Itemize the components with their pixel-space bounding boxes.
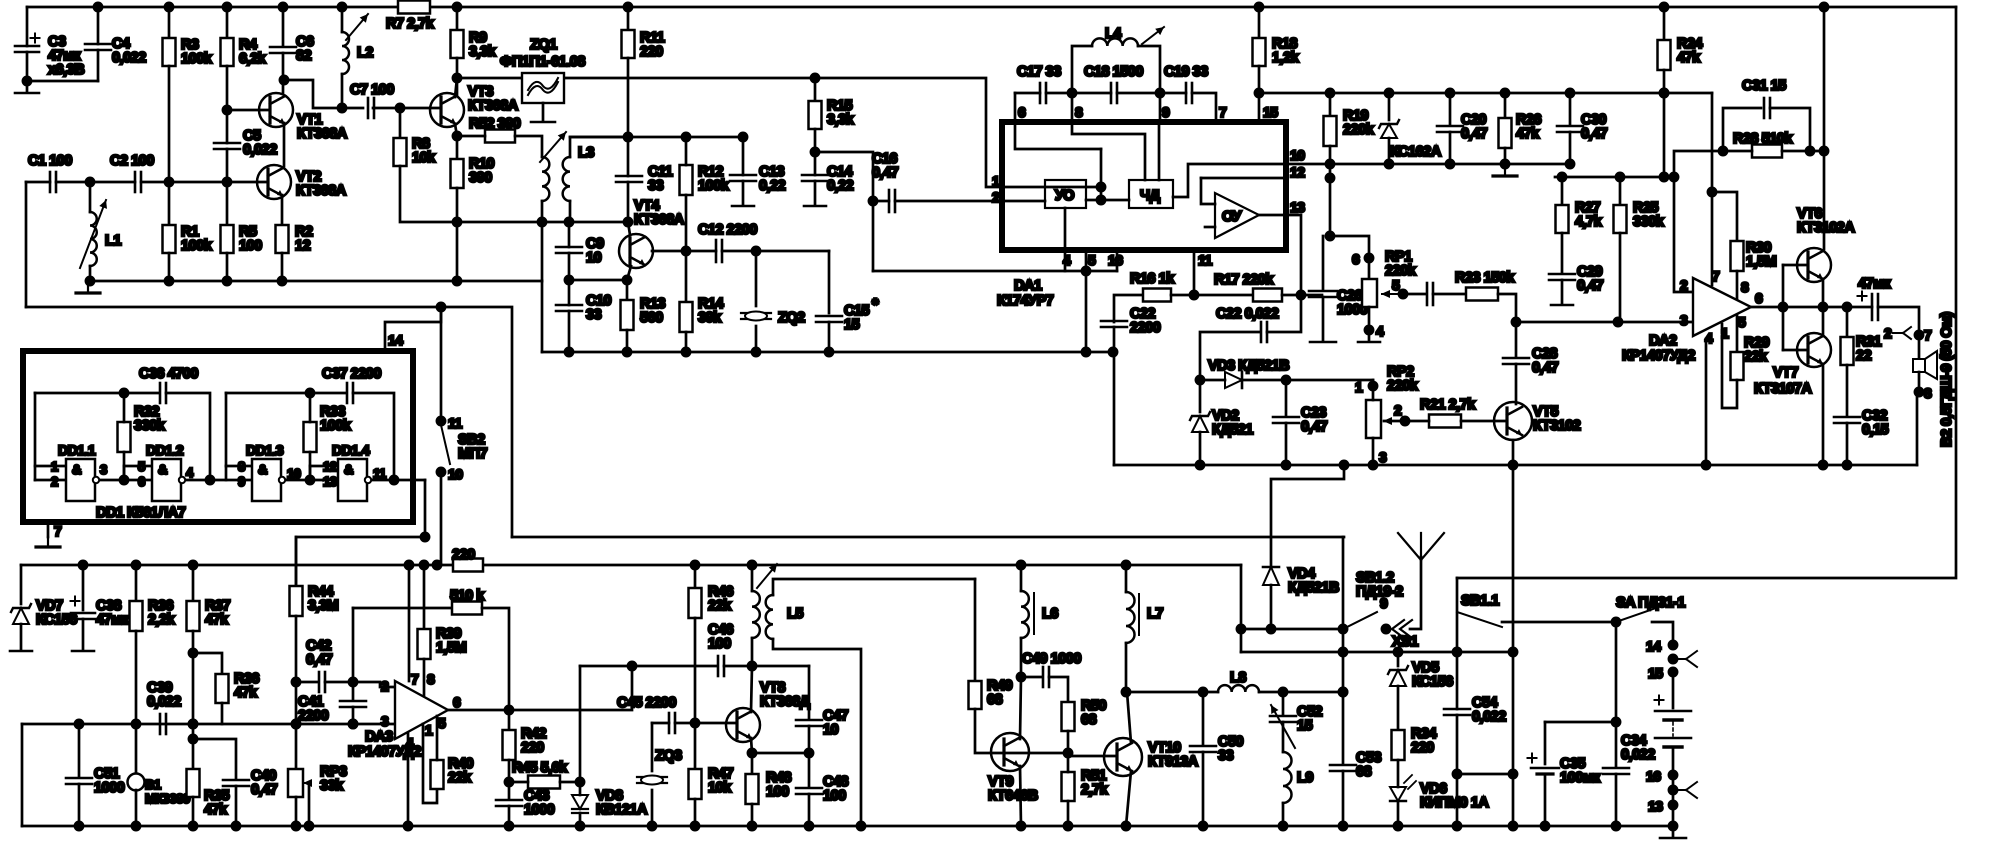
wire R14 bottom xyxy=(685,332,688,352)
junction R25 bottom xyxy=(1614,318,1622,326)
wire DD1.4 in1 xyxy=(310,465,338,468)
svg-text:L9: L9 xyxy=(1297,770,1313,786)
wire C40 branch xyxy=(193,739,236,778)
svg-text:0,022: 0,022 xyxy=(243,142,277,158)
svg-text:КТ368А: КТ368А xyxy=(468,98,519,114)
svg-text:КТ368А: КТ368А xyxy=(634,212,685,228)
svg-text:1: 1 xyxy=(1355,379,1363,395)
core line L6 xyxy=(1033,593,1035,634)
resistor R12 100k xyxy=(680,165,693,195)
wire C47 top xyxy=(808,666,811,718)
wire R25 bottom xyxy=(1619,233,1622,322)
svg-text:8: 8 xyxy=(238,459,245,474)
junction VT10 collector xyxy=(1122,688,1130,696)
wire C50 bottom xyxy=(1202,752,1205,826)
capacitor C4 0,022 xyxy=(85,44,111,50)
wire VT7 base lead xyxy=(1783,349,1808,352)
junction riser 632 xyxy=(628,662,636,670)
wire C26 bottom xyxy=(1322,297,1325,341)
wire R19 bottom xyxy=(1329,146,1332,236)
svg-text:L6: L6 xyxy=(1042,606,1058,622)
wire R23 to pin3 node xyxy=(1498,294,1516,322)
junction dots y724 xyxy=(75,720,357,728)
wire C40 bottom xyxy=(235,786,238,826)
capacitor C29 0,47 xyxy=(1549,274,1575,280)
wire DD1.2 out xyxy=(187,479,252,482)
junction dots y164 xyxy=(1385,160,1574,168)
resistor R33 100k xyxy=(304,422,317,452)
svg-text:КИПМ0 1А: КИПМ0 1А xyxy=(1420,795,1489,811)
wire C41 bottom xyxy=(352,707,355,724)
wire C3 to node xyxy=(26,52,29,81)
wire L3 primary bottom xyxy=(541,201,544,281)
svg-text:DA1: DA1 xyxy=(1014,278,1042,294)
capacitor C22 2200 xyxy=(1101,321,1127,327)
svg-text:DD1.2: DD1.2 xyxy=(146,442,184,458)
svg-text:220: 220 xyxy=(452,547,475,563)
resistor 220 rail xyxy=(453,559,483,572)
wire C35 bottom xyxy=(1544,774,1547,826)
capacitor C18 1500 xyxy=(1111,83,1117,103)
svg-text:0,022: 0,022 xyxy=(112,50,146,66)
capacitor C53 68 xyxy=(1330,765,1356,771)
capacitor 47мк output xyxy=(1858,292,1879,321)
svg-text:3: 3 xyxy=(381,713,389,729)
wire TX enable net xyxy=(512,536,1344,539)
resistor R17 220k xyxy=(1253,289,1282,302)
svg-text:2: 2 xyxy=(381,678,389,694)
svg-text:0,47: 0,47 xyxy=(1577,278,1604,294)
wire decoupling y271 xyxy=(873,270,1086,273)
wire R49 column xyxy=(974,579,977,681)
wire battery gnd lead xyxy=(1672,826,1675,836)
wire C7 tap xyxy=(284,80,363,108)
svg-text:2: 2 xyxy=(1394,402,1402,418)
junction C28 node xyxy=(1512,318,1520,326)
svg-text:68: 68 xyxy=(1081,712,1097,728)
svg-text:47k: 47k xyxy=(1677,50,1701,66)
antenna xyxy=(1398,533,1444,560)
wire R38 bottom xyxy=(221,703,224,724)
junction R15 top xyxy=(811,74,819,82)
wire to DA3 pin2 xyxy=(353,682,395,687)
resistor R5 100 xyxy=(221,225,234,253)
resistor R13 560 xyxy=(621,300,634,330)
capacitor C36 4700 xyxy=(160,383,166,403)
svg-text:C37 2200: C37 2200 xyxy=(322,366,381,382)
wire R45 left xyxy=(509,781,528,784)
transistor VT5 KT3102 xyxy=(1494,402,1532,440)
wire R38 branch xyxy=(193,653,222,674)
resistor R27 4,7k xyxy=(1556,205,1569,233)
wire C31 loop right xyxy=(1770,108,1810,151)
wire to RP1 pin6 xyxy=(1330,236,1369,279)
junction VT4 base xyxy=(624,218,632,226)
wire R9 top xyxy=(456,7,459,30)
wire DD1.4 out xyxy=(373,479,425,482)
svg-text:14: 14 xyxy=(1646,638,1661,654)
inductor L6 xyxy=(1021,591,1029,638)
svg-text:R23 150k: R23 150k xyxy=(1455,270,1515,286)
wire C37 right xyxy=(353,393,394,480)
battery GB1 xyxy=(1655,696,1692,748)
wire C45 right xyxy=(675,722,736,725)
capacitor C43 1000 xyxy=(496,800,522,806)
svg-text:3: 3 xyxy=(100,462,107,477)
svg-text:КТ368Д: КТ368Д xyxy=(760,694,811,710)
junction R37 taps xyxy=(189,649,197,743)
junction speaker pin8 xyxy=(1915,388,1923,396)
junction C52 top xyxy=(1279,688,1347,696)
resistor R16 1k xyxy=(1143,289,1171,302)
zener VD2 КД521 xyxy=(1190,412,1210,432)
wire DA1 pin8 internal xyxy=(1072,122,1145,180)
svg-text:C36 4700: C36 4700 xyxy=(139,366,198,382)
resistor R24 47k xyxy=(1658,40,1671,70)
svg-text:B1: B1 xyxy=(145,777,161,792)
wire ground rail corner down xyxy=(541,281,544,352)
wire R11 bottom xyxy=(627,58,630,137)
svg-text:L4: L4 xyxy=(1105,26,1121,42)
resistor R51 2,7k xyxy=(1062,772,1075,801)
svg-text:ZQ1: ZQ1 xyxy=(530,37,557,53)
svg-text:13: 13 xyxy=(1648,798,1663,814)
svg-text:47мк: 47мк xyxy=(96,612,129,628)
wire VT5 emitter xyxy=(1512,440,1515,465)
wire VT6 base lead xyxy=(1783,264,1808,267)
wire C15 drop xyxy=(828,251,831,313)
junction VT1 base xyxy=(223,106,231,114)
svg-text:7: 7 xyxy=(1924,327,1932,343)
wire C26 top lead xyxy=(1322,236,1325,289)
resistor R19 220k xyxy=(1324,116,1337,146)
wire C7 to VT3 base xyxy=(373,107,440,110)
resistor R35 47k xyxy=(187,769,200,797)
svg-text:DA3: DA3 xyxy=(365,729,393,745)
junction VT1 collector node xyxy=(280,76,346,112)
wire C4 column xyxy=(97,7,100,44)
resistor R18 1,2k xyxy=(1253,38,1266,66)
svg-text:11: 11 xyxy=(1198,252,1213,268)
resistor R29 22k xyxy=(1731,352,1744,380)
capacitor C7 100 xyxy=(368,98,374,118)
wire R48 top xyxy=(751,753,754,774)
wire L5 primary bottom xyxy=(751,638,754,666)
wire R18 bottom xyxy=(1258,66,1261,93)
wire VD7 top xyxy=(20,565,23,604)
svg-text:R16 1k: R16 1k xyxy=(1130,271,1175,287)
svg-text:VD3 КД521В: VD3 КД521В xyxy=(1208,358,1289,374)
wire R31 to C32 xyxy=(1846,365,1849,416)
wire VT2 emitter xyxy=(281,195,284,225)
junction R19 taps xyxy=(1326,160,1334,182)
junction VD4 rail tap xyxy=(1340,461,1348,469)
svg-text:&: & xyxy=(344,462,353,477)
wire L3 secondary top xyxy=(570,137,628,157)
wire DA2 output xyxy=(1751,306,1872,309)
wire R44 top xyxy=(295,537,298,586)
junction R1 top xyxy=(165,178,173,186)
wire y79 C3-C4 xyxy=(27,80,98,83)
junction RP2 top xyxy=(1369,382,1377,390)
wire DA1 pin2 internal xyxy=(1002,200,1045,203)
svg-text:100k: 100k xyxy=(698,178,730,194)
svg-text:10: 10 xyxy=(1290,147,1305,163)
svg-text:DD1.1: DD1.1 xyxy=(58,442,96,458)
resistor R10 390 xyxy=(451,159,464,188)
wire C16 to DA1 pin2 xyxy=(895,200,1002,203)
svg-text:R45 5,6k: R45 5,6k xyxy=(512,760,568,776)
capacitor C47 10 xyxy=(796,720,822,726)
wire R49 bottom xyxy=(975,709,1068,753)
wire top supply rail xyxy=(27,6,1956,9)
potentiometer RP1 220k xyxy=(1362,279,1377,307)
wire R44 bottom xyxy=(295,616,298,769)
wire VT3 emitter xyxy=(455,124,457,159)
resistor R1 100k xyxy=(163,225,176,253)
wire speaker top lead xyxy=(1918,335,1921,359)
wire DD1.2 in1 xyxy=(124,465,152,468)
wire mid ground rail xyxy=(1114,464,1917,467)
wire VT6 emitter xyxy=(1822,279,1825,307)
wire DD1.2 tie xyxy=(123,466,126,480)
capacitor C22 0,022 xyxy=(1261,322,1267,342)
wiper arrow RP3 xyxy=(303,779,312,787)
resistor R47 10k xyxy=(689,769,702,799)
microphone B1 МК3389 xyxy=(128,774,145,791)
wire R39 bottom to pin8 xyxy=(423,659,426,695)
resistor R14 39k xyxy=(680,302,693,332)
junction RP1 wiper xyxy=(1399,290,1407,298)
wire VD5 top xyxy=(1397,652,1400,666)
wire pin13 column xyxy=(1286,215,1301,295)
wire C23 top xyxy=(1285,380,1288,416)
capacitor C50 33 xyxy=(1190,746,1216,752)
svg-text:3: 3 xyxy=(1680,312,1688,328)
junction VT4 emitter xyxy=(623,276,631,284)
junction R42 top xyxy=(505,706,513,714)
svg-text:220k: 220k xyxy=(1343,122,1375,138)
wire C9 leads xyxy=(568,222,571,247)
svg-text:2200: 2200 xyxy=(298,708,329,724)
wire R26 top xyxy=(1504,93,1507,118)
capacitor C49 1000 xyxy=(1043,667,1049,687)
svg-text:13: 13 xyxy=(323,474,337,489)
svg-text:330k: 330k xyxy=(1633,214,1665,230)
zener VD1 КС162А xyxy=(1379,120,1399,138)
svg-text:100k: 100k xyxy=(181,51,213,67)
gate DD1.1 xyxy=(66,459,99,501)
junction R45 node xyxy=(505,778,513,786)
svg-text:VT7: VT7 xyxy=(1773,365,1799,381)
wire SB1.1 column xyxy=(1456,578,1459,652)
wire C53 column xyxy=(1342,537,1345,763)
svg-text:DD1.4: DD1.4 xyxy=(332,442,370,458)
wire RP3 bottom xyxy=(295,797,298,826)
svg-text:DD1 К561ЛА7: DD1 К561ЛА7 xyxy=(96,505,186,521)
svg-text:0,47: 0,47 xyxy=(251,782,278,798)
IC DD1 box xyxy=(23,351,413,522)
svg-text:C2 100: C2 100 xyxy=(110,153,154,169)
junction pin13 node xyxy=(1297,291,1305,299)
wire audio bus y724 xyxy=(22,723,395,726)
capacitor C51 1000 xyxy=(66,778,92,784)
junction battery taps xyxy=(1669,641,1677,830)
wire R3 to base node xyxy=(168,66,171,225)
svg-text:0,47: 0,47 xyxy=(872,165,899,181)
wire R18 top xyxy=(1258,7,1261,38)
svg-text:22k: 22k xyxy=(448,770,472,786)
wire L4 loop xyxy=(1072,46,1092,93)
svg-text:КД521В: КД521В xyxy=(1288,580,1339,596)
capacitor C54 0,022 xyxy=(1444,709,1470,715)
svg-text:C31 15: C31 15 xyxy=(1742,78,1786,94)
wire antenna lead xyxy=(1410,557,1421,629)
svg-text:33k: 33k xyxy=(320,778,344,794)
junction SB1.2 contact xyxy=(1382,625,1390,633)
wire bottom supply rail xyxy=(21,564,1241,567)
wire tank return xyxy=(457,221,542,224)
junction C50 top xyxy=(1199,688,1207,696)
wire R51 leads xyxy=(1067,753,1070,772)
wire front-end ground rail xyxy=(88,280,542,283)
capacitor C10 33 xyxy=(556,305,582,311)
svg-text:8: 8 xyxy=(1075,104,1083,120)
wire lower return rail xyxy=(26,307,512,537)
wire IF signal y137 xyxy=(570,136,743,139)
junction ZQ2 top xyxy=(752,247,760,255)
capacitor C3 47мк электролит xyxy=(15,34,40,53)
wire C12 right xyxy=(722,250,829,253)
resistor R15 3,3k xyxy=(809,101,822,129)
svg-text:КТ368А: КТ368А xyxy=(297,126,348,142)
wire DA1 pin9 internal xyxy=(1158,122,1161,180)
wire L4 right leg xyxy=(1138,46,1160,93)
wire VD8 top xyxy=(579,782,582,795)
svg-text:В2 0,5ГДШ-9 (50 Ом): В2 0,5ГДШ-9 (50 Ом) xyxy=(1939,312,1955,447)
wire output to jack xyxy=(1878,307,1919,335)
wire R47 bottom xyxy=(694,799,697,826)
wire R27 to C29 xyxy=(1561,233,1564,272)
inductor L7 xyxy=(1126,592,1135,643)
svg-text:16: 16 xyxy=(1108,252,1123,268)
wire VD2 bottom xyxy=(1199,432,1202,465)
svg-text:220: 220 xyxy=(640,44,663,60)
wire C36 right xyxy=(166,393,210,480)
wire DA1 pin4 column xyxy=(1064,208,1067,271)
wire R8 column xyxy=(399,108,402,138)
junction R46 node xyxy=(691,719,699,727)
junction speaker pin7 xyxy=(1915,331,1923,339)
wire ZQ1 ground lead xyxy=(542,103,545,120)
wire C35 branch xyxy=(1545,721,1616,724)
wire R34 bottom xyxy=(1397,760,1400,787)
resistor R37 47k xyxy=(187,601,200,631)
wire R28 right xyxy=(1782,150,1824,153)
svg-text:C18 1500: C18 1500 xyxy=(1084,64,1143,80)
connector fork upper xyxy=(1673,651,1697,667)
wire R9 bottom xyxy=(456,58,459,95)
transistor VT6 KT3102A xyxy=(1797,248,1831,282)
capacitor C16 0,47 xyxy=(889,190,895,212)
wire C18-C19 xyxy=(1117,92,1186,95)
resistor 510k xyxy=(452,602,482,615)
wire supply y93 xyxy=(1259,92,1712,95)
junction RP1 pin6 xyxy=(1365,254,1373,262)
wire pin7 column DA2 xyxy=(1711,93,1714,285)
junction R32 top xyxy=(120,389,128,397)
wire R30 to pin8 xyxy=(1736,271,1739,299)
svg-text:*: * xyxy=(872,295,879,314)
wire RP1 bottom xyxy=(1368,307,1371,341)
wire C2 to VT2 base xyxy=(141,181,267,184)
svg-text:100: 100 xyxy=(766,784,789,800)
wire C54 bottom xyxy=(1456,715,1459,826)
wire R46 bottom xyxy=(694,618,697,769)
junction dots bottom ground xyxy=(75,822,1620,830)
capacitor C38 47мк xyxy=(71,597,96,620)
wire R17 right xyxy=(1282,294,1322,297)
svg-text:8: 8 xyxy=(427,671,435,687)
op-amp DA3 КР1407УД2 xyxy=(395,681,448,739)
resistor R50 68 xyxy=(1062,702,1075,731)
svg-text:10: 10 xyxy=(586,250,602,266)
wire C53 bottom xyxy=(1342,771,1345,826)
wire VD8 bottom xyxy=(579,813,582,826)
junction R12 bottom xyxy=(682,247,690,255)
wire L5 sec bottom xyxy=(773,639,861,826)
wire DD1 pin7 xyxy=(47,522,50,537)
wire R36a bottom xyxy=(135,631,138,724)
gate DD1.3 xyxy=(252,459,285,501)
wire R33 bottom lead xyxy=(309,452,312,480)
svg-text:68: 68 xyxy=(1356,764,1372,780)
svg-text:R17 220k: R17 220k xyxy=(1214,272,1274,288)
wire C28 top xyxy=(1515,322,1518,357)
svg-text:1000: 1000 xyxy=(524,802,555,818)
wire L5 sec top xyxy=(773,579,975,595)
capacitor C2 100 xyxy=(135,172,141,192)
wire tank bottom xyxy=(399,221,402,224)
wire VT4 collector right xyxy=(652,250,716,253)
junction L4 right xyxy=(1156,89,1164,97)
svg-text:11: 11 xyxy=(373,466,386,481)
wire R37 top xyxy=(192,565,195,601)
inductor L5 primary xyxy=(752,591,760,638)
junction keying xyxy=(421,533,429,541)
wire ZQ3 top xyxy=(651,723,654,771)
wire C30 top xyxy=(1569,93,1572,125)
svg-text:1: 1 xyxy=(51,459,58,474)
wire L5 primary top xyxy=(751,565,754,591)
tuning arrow L1 xyxy=(80,200,107,268)
junction R10-loop xyxy=(453,218,461,226)
wire VT8 emitter xyxy=(751,738,752,753)
wire VT6 base net xyxy=(1782,265,1785,350)
resistor R2 12 xyxy=(276,225,289,253)
junction y774 xyxy=(1453,770,1517,778)
inductor L1 xyxy=(90,212,97,266)
wire R52 right to L3 xyxy=(515,136,542,157)
junction C49 node xyxy=(1017,673,1025,681)
svg-text:15: 15 xyxy=(1648,665,1663,681)
wire R32 top lead xyxy=(123,393,126,422)
resistor R11 220 xyxy=(622,30,635,58)
wire L7 top xyxy=(1125,565,1128,592)
svg-text:КС156: КС156 xyxy=(1412,674,1453,690)
wire VD7 bottom xyxy=(20,624,23,650)
wire IF supply rail y78 xyxy=(457,77,522,80)
